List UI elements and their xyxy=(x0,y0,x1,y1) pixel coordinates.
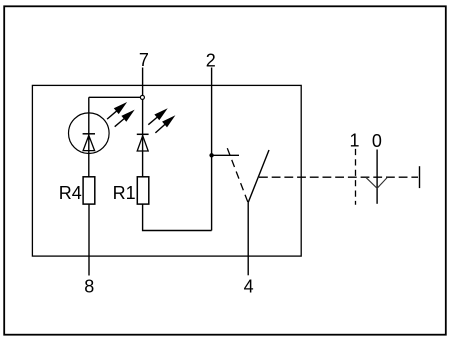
LED diode light arrow 2 xyxy=(155,115,175,133)
LED lamp diode triangle xyxy=(83,135,95,150)
LED lamp light arrow 1 xyxy=(107,102,127,119)
LED diode light arrow 1 xyxy=(148,108,167,125)
LED lamp cathode bar xyxy=(83,133,95,135)
wire (lamp branch vertical) xyxy=(88,97,90,177)
svg-text:1: 1 xyxy=(349,130,359,150)
svg-text:R1: R1 xyxy=(113,183,136,203)
mechanical linkage dashed wire xyxy=(259,176,418,178)
resistor R1 return wire xyxy=(143,204,212,230)
actuator position pointer V xyxy=(366,177,388,188)
switch bottom wire to pin 4 xyxy=(247,203,249,275)
switch lever alternate (position 1, dashed) xyxy=(227,148,248,203)
resistor R4 xyxy=(83,177,95,204)
LED diode triangle xyxy=(137,136,148,151)
LED diode cathode bar xyxy=(137,133,149,135)
LED lamp light arrow 2 xyxy=(115,110,135,127)
svg-text:8: 8 xyxy=(84,277,94,297)
position 0 actuator line xyxy=(376,150,378,204)
LED lamp circle xyxy=(69,113,110,154)
svg-text:4: 4 xyxy=(244,277,254,297)
switch fixed contact wire xyxy=(212,154,239,156)
node junction ring at pin7 branch xyxy=(140,95,144,99)
switch lever (position 0, solid) xyxy=(248,150,269,203)
component enclosure box xyxy=(32,85,301,256)
pin 2 wire xyxy=(211,68,213,231)
svg-text:0: 0 xyxy=(372,131,382,151)
linkage end stop tick xyxy=(419,166,421,188)
node junction dot at switch contact xyxy=(209,153,213,157)
position 1 dashed line xyxy=(355,149,357,205)
svg-text:2: 2 xyxy=(206,50,216,70)
resistor R1 xyxy=(137,177,149,204)
resistor R4 bottom wire to pin 8 xyxy=(88,204,90,275)
wire (lamp branch horizontal) xyxy=(89,96,143,98)
svg-text:R4: R4 xyxy=(59,183,82,203)
pin 7 wire xyxy=(142,68,144,177)
svg-text:7: 7 xyxy=(139,50,149,70)
